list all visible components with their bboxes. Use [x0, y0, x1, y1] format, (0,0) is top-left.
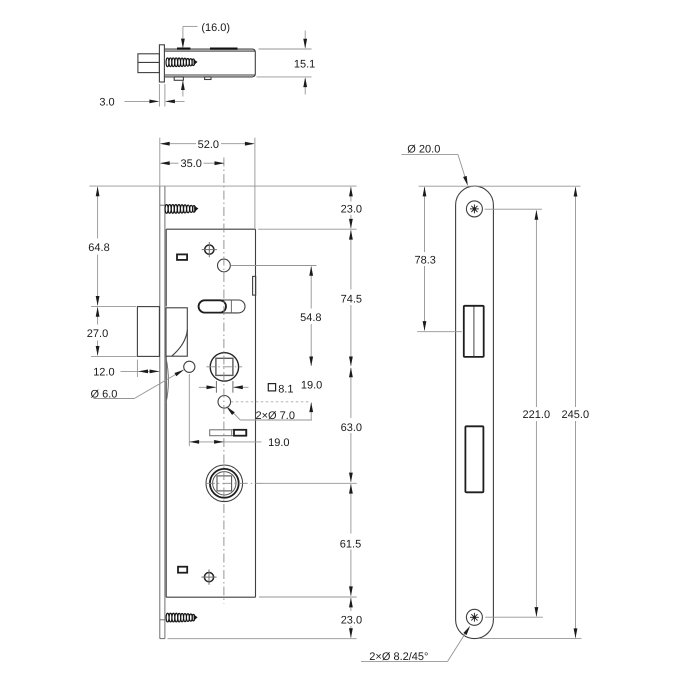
svg-text:221.0: 221.0: [523, 409, 551, 421]
svg-text:61.5: 61.5: [340, 538, 361, 550]
svg-text:8.1: 8.1: [278, 383, 293, 395]
svg-text:78.3: 78.3: [414, 254, 435, 266]
svg-text:23.0: 23.0: [341, 614, 362, 626]
svg-text:74.5: 74.5: [341, 294, 362, 306]
svg-text:Ø 20.0: Ø 20.0: [407, 143, 440, 155]
svg-text:52.0: 52.0: [198, 139, 219, 151]
svg-text:245.0: 245.0: [562, 409, 590, 421]
svg-text:12.0: 12.0: [93, 367, 114, 379]
svg-text:Ø 6.0: Ø 6.0: [91, 389, 118, 401]
svg-text:(16.0): (16.0): [201, 22, 230, 34]
svg-text:35.0: 35.0: [180, 158, 201, 170]
svg-text:27.0: 27.0: [87, 328, 108, 340]
svg-text:19.0: 19.0: [301, 380, 322, 392]
svg-text:15.1: 15.1: [294, 58, 315, 70]
svg-text:63.0: 63.0: [341, 422, 362, 434]
svg-text:3.0: 3.0: [99, 97, 114, 109]
svg-text:2×Ø 7.0: 2×Ø 7.0: [256, 410, 295, 422]
svg-text:19.0: 19.0: [268, 437, 289, 449]
svg-text:64.8: 64.8: [88, 242, 109, 254]
svg-text:23.0: 23.0: [341, 204, 362, 216]
svg-text:54.8: 54.8: [300, 312, 321, 324]
